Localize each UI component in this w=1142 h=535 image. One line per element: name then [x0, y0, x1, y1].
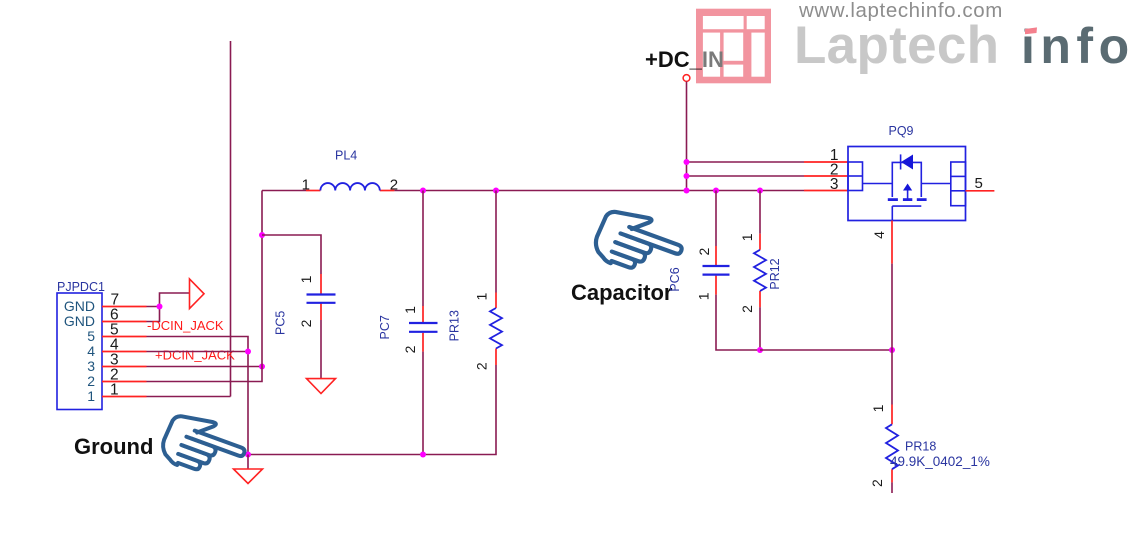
wire pin6 riser to pin7 junction: [147, 307, 160, 322]
svg-text:GND: GND: [64, 298, 95, 314]
PQ9 right pin block: [951, 162, 966, 206]
PQ9 pin stubs 1,2,3 (red): [804, 162, 848, 191]
svg-text:PR12: PR12: [768, 258, 782, 289]
logo square (laptech info): [696, 9, 771, 84]
hand icon pointing at ground node: [158, 408, 251, 485]
svg-text:2: 2: [739, 305, 755, 313]
wire pin5 to x=248 and down to ground rail: [147, 337, 249, 455]
svg-text:PC6: PC6: [668, 267, 682, 291]
svg-text:+DC_IN: +DC_IN: [645, 47, 724, 72]
port arrow (right-pointing open triangle): [190, 279, 205, 309]
junction pin4/pin5: [245, 349, 251, 355]
wire pin1 to long vertical: [147, 396, 231, 398]
svg-text:1: 1: [739, 233, 755, 241]
PC7 pin stubs: [422, 306, 424, 322]
PQ9 substrate arrow: [903, 184, 912, 191]
connector inner pin names: [64, 298, 95, 404]
ground stem: [247, 455, 249, 470]
PR13 wire to bottom rail: [423, 365, 496, 455]
PQ9 pin 4 stub: [891, 221, 893, 264]
connector PJPDC1 box: [57, 293, 102, 410]
wires to PQ9 pins 1,2: [687, 161, 805, 163]
svg-text:2: 2: [87, 373, 95, 389]
connector pin numbers: [110, 292, 119, 399]
PC7 wire to bottom rail: [422, 352, 424, 455]
PQ9 mosfet body: [888, 154, 927, 220]
capacitor PC5: [274, 274, 336, 394]
svg-text:PR13: PR13: [448, 310, 462, 341]
pink accent on i of info: [1020, 13, 1040, 29]
bottom wire PC6/PR12 to PQ9 pin4 net: [760, 349, 892, 351]
svg-text:1: 1: [696, 292, 712, 300]
wire pin4: [147, 351, 249, 353]
net port circle +DC_IN: [683, 75, 690, 82]
wire branch to PC5: [262, 235, 321, 274]
svg-text:2: 2: [298, 319, 314, 327]
svg-text:Ground: Ground: [74, 434, 153, 459]
PC6 wire to bottom: [716, 295, 760, 350]
svg-text:PJPDC1: PJPDC1: [57, 280, 105, 294]
junction PC5 branch: [259, 232, 265, 238]
ground rail wire: [248, 454, 423, 456]
svg-text:1: 1: [402, 306, 418, 314]
hand icon pointing at PC6: [590, 204, 688, 285]
svg-text:1: 1: [87, 388, 95, 404]
wire pin2 to vertical x=262 up to main rail: [147, 191, 263, 382]
main rail wire: [262, 190, 306, 192]
wire pin7 to GND arrow: [147, 293, 190, 307]
svg-text:PC7: PC7: [378, 315, 392, 339]
junction main/+DC_IN: [684, 188, 690, 194]
connector pin stubs (red): [102, 307, 147, 397]
resistor PR13: [423, 191, 502, 455]
junction at pin4 vertical: [889, 347, 895, 353]
PR12 zigzag: [754, 250, 766, 291]
PR12 wire from main: [759, 191, 761, 234]
svg-text:4: 4: [871, 231, 887, 239]
junction +DC_IN/pin1: [684, 159, 690, 165]
junction +DC_IN/pin2: [684, 173, 690, 179]
PC6 pin stubs: [715, 246, 717, 265]
junction pin6/pin7: [157, 304, 163, 310]
PR12 wire to bottom: [759, 307, 761, 350]
svg-text:2: 2: [474, 362, 490, 370]
svg-text:PC5: PC5: [274, 311, 288, 335]
svg-text:Laptech: Laptech: [794, 16, 999, 75]
ground symbol: [234, 469, 263, 484]
svg-text:1: 1: [474, 292, 490, 300]
junction pin3: [259, 364, 265, 370]
PC5 wire to ground: [320, 320, 322, 379]
PC5 plates: [307, 293, 336, 295]
svg-text:1: 1: [870, 404, 886, 412]
junction main/PR13: [493, 188, 499, 194]
inductor PL4 coil: [320, 183, 379, 190]
PQ9 left pin block: [848, 162, 863, 191]
PR13 pin stubs: [495, 293, 497, 309]
svg-text:5: 5: [87, 328, 95, 344]
svg-text:3: 3: [87, 358, 95, 374]
PQ9 pin 5 stub: [966, 190, 995, 192]
PQ9 pin numbers 1,2,3: [830, 147, 839, 193]
svg-text:2: 2: [869, 479, 885, 487]
wire pin4 down to PR18: [891, 264, 893, 405]
junction ground node: [245, 452, 251, 458]
wire: +DC_IN vertical down to main rail: [686, 82, 688, 191]
wire: long vertical top-left (x=230): [230, 41, 232, 397]
wire pin3: [147, 366, 263, 368]
capacitor PC6: [668, 191, 760, 351]
svg-text:PQ9: PQ9: [889, 124, 914, 138]
transistor PQ9 box: [848, 147, 966, 221]
junction main/PR12: [757, 188, 763, 194]
PC5 ground symbol: [307, 379, 336, 394]
inductor PL4 pin stubs: [306, 190, 320, 192]
PC6 wire from main: [715, 191, 717, 247]
svg-text:49.9K_0402_1%: 49.9K_0402_1%: [890, 454, 990, 469]
svg-text:PL4: PL4: [335, 149, 357, 163]
PC7 plates: [409, 322, 438, 324]
PR13 wire from main: [495, 191, 497, 293]
resistor PR18: [869, 404, 990, 493]
svg-text:1: 1: [298, 275, 314, 283]
svg-text:5: 5: [975, 175, 983, 192]
PC5 pin stubs: [320, 274, 322, 294]
PR18 bottom wire end: [891, 482, 893, 493]
PQ9 body diode triangle: [901, 155, 913, 170]
svg-text:-DCIN_JACK: -DCIN_JACK: [147, 318, 224, 333]
svg-text:2: 2: [402, 345, 418, 353]
capacitor PC7: [378, 191, 437, 455]
svg-text:PR18: PR18: [905, 440, 936, 454]
PR13 zigzag: [490, 308, 502, 349]
PR12 pin stubs: [759, 234, 761, 250]
junction main/PC7: [420, 188, 426, 194]
svg-text:2: 2: [696, 247, 712, 255]
PC6 plates: [703, 265, 730, 267]
svg-text:Capacitor: Capacitor: [571, 280, 673, 305]
PC7 wire from main: [422, 191, 424, 307]
PQ9 internal gate connection line: [863, 183, 893, 185]
junction main/PC6: [713, 188, 719, 194]
resistor PR12: [739, 191, 782, 354]
junction PR12 bottom: [757, 347, 763, 353]
PR18 zigzag: [886, 424, 898, 469]
svg-text:3: 3: [830, 176, 839, 193]
svg-text:+DCIN_JACK: +DCIN_JACK: [155, 348, 235, 363]
svg-text:GND: GND: [64, 313, 95, 329]
junction ground rail / PC7: [420, 452, 426, 458]
svg-text:4: 4: [87, 343, 95, 359]
PR18 pin stubs: [891, 405, 893, 425]
